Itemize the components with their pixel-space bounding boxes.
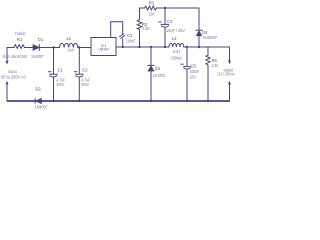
svg-text:16V: 16V [190,74,196,79]
node dot C5 bottom [186,100,188,102]
op-amp U1 / IC1 box [91,38,116,56]
resistor R4 [206,47,210,101]
node dot R2 [138,46,140,48]
wire R1 to D1 [25,47,34,49]
svg-text:12V / 200mA: 12V / 200mA [217,72,235,77]
wire L1 to IC1 [78,47,91,49]
diode D2 [34,98,36,103]
svg-text:C3: C3 [127,33,133,38]
inductor L1 [60,43,78,47]
svg-text:C2: C2 [82,68,88,73]
wire BP pin loop [111,22,123,38]
node dot C3 [122,46,124,48]
polarity mark C5 [181,63,183,65]
svg-text:280mA: 280mA [171,55,183,60]
diode D3 [148,64,154,66]
polarity mark C4 [159,21,161,23]
inductor L2 [169,43,184,47]
resistor R3 [145,6,157,10]
node dot D3 bottom [150,100,152,102]
svg-text:2.0K: 2.0K [142,26,150,31]
node dot D3 top [150,46,152,48]
output terminal arrow bottom [228,81,231,85]
node dot D4 bottom [198,46,200,48]
svg-text:C5: C5 [191,64,197,69]
capacitor C3 [119,34,124,39]
svg-text:10uF / 25V: 10uF / 25V [166,28,185,33]
node dot C4/L2 [164,46,166,48]
input terminal arrow bottom [6,81,9,85]
node dot R3/C4 top [164,7,166,9]
node dot C1 [52,46,54,48]
diode D4 [196,29,202,31]
wire input vertical bottom [6,84,8,101]
svg-text:input: input [8,69,17,74]
wire L2 right to output corner [165,47,230,61]
capacitor C5 [184,47,191,101]
capacitor C1 [50,48,58,102]
bottom rail [7,100,230,102]
resistor R1 [14,45,25,49]
svg-text:8.2 ohm/2W: 8.2 ohm/2W [3,54,27,59]
svg-text:3.3K: 3.3K [212,63,219,68]
input terminal arrow top [6,61,9,65]
svg-text:400V: 400V [57,82,65,87]
svg-text:100nF: 100nF [126,39,136,44]
svg-text:C4: C4 [167,19,173,24]
polarity mark C2 [74,71,76,73]
wire D1 to L1 [39,47,59,49]
node dot C1 bottom [52,100,54,102]
wire input top corner [7,48,14,62]
svg-text:1N4007: 1N4007 [31,54,45,59]
wire R2 vertical [139,30,141,48]
wire R2 to R3 corner [140,8,145,20]
svg-text:D2: D2 [36,86,42,91]
node dot C2 [78,46,80,48]
svg-text:15K: 15K [149,11,155,16]
svg-text:85 to 250V AC: 85 to 250V AC [1,75,27,80]
svg-text:Fusible: Fusible [15,31,26,36]
polarity mark C1 [49,71,51,73]
svg-text:1N4005GP: 1N4005GP [202,35,217,40]
node dot R4 bottom [207,100,209,102]
capacitor C4 [164,8,166,24]
output terminal arrow top [228,61,231,65]
svg-text:D3: D3 [155,66,161,71]
svg-text:1mH: 1mH [173,49,181,54]
svg-text:L2: L2 [172,36,177,41]
wire C3 to rail [122,39,124,47]
wire IC1 source pin right [116,46,165,48]
svg-text:400V: 400V [82,82,90,87]
wire R3 to node A [157,7,165,9]
resistor R2 [137,20,141,30]
wire D3 vertical [150,47,152,101]
svg-text:R3: R3 [149,1,155,6]
diode D1 [33,45,39,51]
node dot C5 top [186,46,188,48]
svg-text:C1: C1 [58,68,64,73]
svg-text:L1: L1 [67,36,72,41]
svg-text:D1: D1 [38,37,44,42]
wire output vertical bottom [229,84,231,101]
svg-text:LNK304: LNK304 [98,48,108,52]
wire node A to D4 top [165,8,199,30]
svg-text:1mH: 1mH [67,48,75,53]
svg-text:1N4007: 1N4007 [35,104,49,109]
svg-text:UF4005: UF4005 [153,73,166,78]
svg-text:R1: R1 [17,37,23,42]
capacitor C2 [76,48,84,102]
node dot C2 bottom [78,100,80,102]
